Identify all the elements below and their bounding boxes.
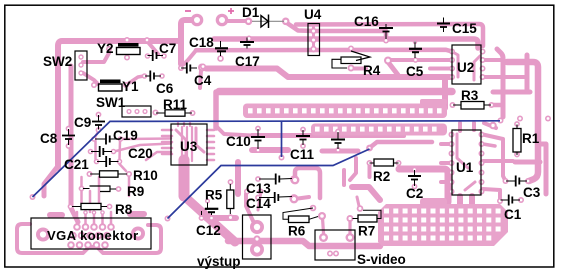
capacitor C14 [259,197,292,198]
wire vertical x90 R9 to VGA [89,191,92,212]
pad SW1-3 [142,109,147,114]
svg-text:C7: C7 [159,41,176,56]
svg-text:S-video: S-video [357,252,406,267]
capacitor C5 [414,42,416,59]
wire y136 C10-C11 [252,133,312,138]
wire y142 right [370,142,432,148]
pad SW1-1 [126,109,131,114]
capacitor C15 [443,18,445,33]
pad VGA hole L [36,228,50,242]
pad C11-1 [300,127,306,133]
svg-text:C17: C17 [235,54,260,69]
pad blue1v end [279,155,285,161]
capacitor C19 [95,138,119,140]
capacitor C16 [385,24,387,39]
wire blue jumper 1 vertical branch [281,122,283,158]
pad VGA row3 pin2 [76,241,84,249]
wire Y1 to C6 [126,76,144,85]
capacitor C7 [148,55,164,57]
pad blue1 end [498,118,504,124]
wire stub above R7 [357,197,359,206]
wire under pour B bottom [313,134,404,138]
resistor R9 [83,188,116,191]
pad U2-4 [449,74,455,80]
wire vga top arms [50,212,62,218]
pad Y2-1 [124,37,130,43]
wire H2 y30.5 [314,31,386,40]
wire y150 left of C11 [252,147,288,153]
blue jumper wires [33,121,501,219]
IC U3 [171,124,207,165]
wire U3 top stubs [177,122,179,126]
svg-text:C4: C4 [194,73,212,88]
resistor R11 [156,112,192,114]
wire s-video pads stubs [323,218,324,233]
wire SW2 to Y2 [83,53,109,62]
wire y151 stub [322,149,358,154]
capacitor C20 [91,151,112,153]
pad R2-1 [367,160,373,166]
pad C16 [383,38,389,44]
pad VGA row2 pin3 [86,232,94,240]
pad SV-3 [319,233,328,242]
pad C9-1 [96,112,102,118]
pad top ring A [191,14,204,27]
wire U2 left lead-in [430,67,452,71]
wire U1 interior [457,134,468,168]
pad U4-3 [310,46,316,52]
resistor R1 [516,125,518,156]
pad Y1-2 [123,82,129,88]
pad VY-3 [250,243,264,257]
wire big diagonal to vystup [179,160,190,196]
pad T1 left [200,64,206,70]
pad C12 stem top [205,199,210,204]
connector SW2 [75,51,87,80]
pad SW2-2 [78,62,83,67]
wire vga outline bracket [17,224,161,253]
pad VGA row2 pin1 [69,232,77,240]
resistor R2 [370,162,399,164]
svg-text:R9: R9 [127,184,144,199]
pad R7-1 [347,215,354,222]
pad C19-2 [118,136,124,142]
wire U1 right small [483,135,505,181]
svg-text:R7: R7 [358,224,375,239]
pad R9-1 [79,186,85,192]
wire T1 y67 [206,69,450,78]
wire T2 vertical to y135 connector [216,126,252,136]
wire diag from T1 left pad down [200,70,201,88]
wire thick band to pour bottom [399,169,448,202]
wire U3 left long pins [123,137,171,140]
wire U3 right comb [207,129,214,132]
pad U2-3 [449,66,455,72]
svg-text:R8: R8 [115,202,133,217]
pad SV-5 [327,251,333,257]
svg-text:C11: C11 [290,147,315,162]
wire band under C12-R5 [206,215,236,221]
pad R8-2 [107,204,113,210]
pad capX-1 [335,129,341,135]
wire junction diagonal to C7 [147,41,158,54]
pad VGA stub tops [83,210,88,215]
plus mark [228,8,234,14]
connector VGA [31,218,151,249]
connector S-video [315,230,355,260]
svg-text:SW1: SW1 [96,95,126,110]
wire loop from C14 pad [298,197,309,199]
capacitor capX [337,132,339,149]
pad U1-a3 [449,151,455,157]
pad U1-a2 [449,141,455,147]
pad U1-a5 [449,170,455,176]
wire H1 y23 [296,24,483,46]
svg-text:C16: C16 [354,14,379,29]
svg-text:U1: U1 [456,160,474,175]
pad Y2 left [106,46,112,52]
pad U2-7 [480,57,486,63]
wire U2 interior [451,51,458,77]
svg-text:R5: R5 [205,188,223,203]
connector vystup [243,215,272,259]
pad VGA row1 pin3 [90,223,98,231]
svg-text:C6: C6 [156,81,174,96]
pad U1 topright [489,122,497,130]
pad C12-2 [209,215,215,221]
pad R8-1 [68,204,74,210]
pad C21-1 [94,159,100,165]
pad vystup top R [258,189,264,195]
wire U1 left stubs [441,142,451,146]
wire y60 to U2 [391,58,452,62]
pad VGA row2 pin2 [78,232,86,240]
pad C7-2 [161,53,167,59]
pad R11-2 [190,110,196,116]
pad U1-b6 [479,179,485,185]
pad SW2-3 [78,70,83,75]
svg-text:SW2: SW2 [43,54,72,69]
pad U1-a6 [449,179,455,185]
pad C18 [217,55,224,62]
capacitor C11cap [302,130,304,145]
wire blue jumper 1 [33,121,501,197]
capacitor C12 [202,203,212,216]
pad C19-1 [91,136,97,142]
pad VY-2 [253,235,260,242]
wire U1 bottom stubs [457,196,463,205]
svg-text:C5: C5 [406,64,424,79]
pad R6-1 [310,205,317,212]
pad R3-2 [489,102,495,108]
pad C20-1 [88,149,94,155]
pad C13-1 [255,176,261,182]
wire U4 interior [312,27,315,51]
pad C6-2 [159,73,165,79]
pad C21-2 [117,159,123,165]
svg-text:C8: C8 [40,131,58,146]
svg-text:R2: R2 [373,169,390,184]
svg-text:U2: U2 [457,60,474,75]
pad R9-2 [116,186,122,192]
svg-text:C18: C18 [189,35,214,50]
pad U1-b4 [479,160,485,166]
capacitor C17 [246,38,248,49]
pad D1 anode [245,18,253,26]
svg-text:C13: C13 [246,181,271,196]
pad blue2 end [366,145,373,152]
pad C5 high [413,40,417,44]
capacitor C21 [97,161,119,163]
diode D1 [252,20,284,22]
capacitor C4 [181,67,197,69]
capacitor C1 [501,199,521,201]
capacitor C6 [145,75,161,77]
pad R4 ring [384,57,392,65]
svg-text:Y1: Y1 [122,79,139,94]
svg-text:C2: C2 [406,186,423,201]
svg-text:D1: D1 [242,5,260,20]
pad C5 low [413,57,419,63]
svg-text:C12: C12 [196,223,221,238]
wire pad to pad top [226,19,247,23]
wire right tall vertical [507,62,538,181]
wire y162 right [515,160,540,165]
pad C8-2 [66,143,72,149]
svg-text:C10: C10 [226,134,251,149]
svg-text:R4: R4 [363,63,381,78]
pad loop1 [291,176,300,185]
svg-text:C15: C15 [452,21,477,36]
copper pour band A [243,99,447,118]
wire U1 top right diag [484,123,496,128]
pad loop2 [290,195,299,204]
connector SW1 [122,106,151,117]
svg-text:VGA konektor: VGA konektor [47,228,139,243]
svg-text:R10: R10 [133,168,158,183]
pad U2-2 [449,57,455,63]
wire T2 y91 band [219,88,452,96]
pad R5-2 [227,214,234,221]
wire diagonal to VGA area [44,166,58,196]
pad C1-2 [518,197,524,203]
pad VGA row3 pin3 [84,241,92,249]
pad R1-1 [514,121,520,127]
svg-text:C19: C19 [113,128,138,143]
svg-text:U3: U3 [180,139,198,154]
pad VGA row1 pin1 [73,223,81,231]
pad blue2 start [165,216,171,222]
wire thick band to pour corner [352,187,380,200]
pad SW1-2 [134,109,139,114]
pad SV-6 [333,251,339,257]
wire H5 y53 [196,50,452,52]
capacitor C8 [68,129,70,145]
minus mark [185,10,191,12]
pad C3-2 [525,178,531,184]
wire vystup pads stubs [246,194,254,223]
capacitor C13 [259,178,292,181]
resistor R3 [453,104,491,106]
pad VGA row3 pin1 [67,241,75,249]
pad y118 L [517,116,523,122]
wire U3 inner diag [176,130,186,160]
pad Y1-1 [91,82,97,88]
pad C14-2 [290,194,299,203]
wire vertical x503 [497,49,503,117]
svg-text:C20: C20 [128,146,153,161]
wire D1 to U4 [287,23,313,31]
pad U1-a4 [449,160,455,166]
wire vertical x356 [350,158,356,180]
pad R10-1 [87,171,93,177]
pad VGA row3 pin5 [101,241,109,249]
pad C20-2 [111,149,117,155]
pad R1-2 [514,152,520,158]
pad VGA row1 pin2 [82,223,90,231]
pad R3-1 [450,102,456,108]
svg-text:R11: R11 [163,97,188,112]
pad SW2-1 [78,54,83,59]
pad VGA row1 pin5 [107,223,115,231]
svg-text:R3: R3 [461,88,479,103]
wire vertical x344 [342,170,346,185]
pad U1-a7 [449,189,455,195]
pad top ring B [216,14,229,27]
pad R2-2 [396,160,402,166]
pad U1-a1 [449,132,455,138]
pad U4-1 [310,28,316,34]
resistor R6 [283,208,318,219]
pad junction T1 [144,37,150,43]
pad U2-8 [480,49,486,55]
IC U2 [452,45,481,84]
capacitor C18 [220,41,222,56]
wire H3 y39 [214,39,478,48]
svg-text:C21: C21 [64,157,89,172]
resistor R8 [72,206,107,208]
wire vertical x238 [235,162,241,194]
wire loop from C13 pad [295,168,320,198]
wire U1 top stubs [458,123,462,131]
wire vga feeder verticals [76,212,79,226]
pad capX-2 [335,147,341,153]
pad C1-1 [497,198,503,204]
wire U3 left comb [162,129,172,132]
pad U1-b5 [479,170,485,176]
pad VGA row3 pin4 [93,241,101,249]
pad C4-2 [198,64,206,72]
pad C6-1 [142,73,148,79]
pad U1-b2 [479,141,485,147]
pad C3-1 [503,178,509,184]
capacitor C10 [257,129,259,149]
crystal Y2 [118,43,139,47]
pad C11-2 [300,143,306,149]
pad R4 bottom [348,65,355,72]
wire left column links [95,132,98,137]
pad vystup top L [244,189,250,195]
wire U2 right connections [482,58,502,62]
pad U2-5 [480,74,486,80]
wire SW2 to Y1 [83,73,98,84]
pad C7-1 [145,53,151,59]
pad U1-b1 [479,132,485,138]
capacitor C9 [98,115,100,130]
pad U1-b3 [479,151,485,157]
svg-text:C14: C14 [246,196,271,211]
capacitor C2 [414,170,416,186]
svg-text:C9: C9 [74,115,91,130]
svg-text:C1: C1 [504,207,522,222]
wire pour A feed [442,79,448,108]
pad VGA row2 pin4 [95,232,103,240]
copper pour band B [311,124,447,136]
pad C9-2 [96,127,102,133]
pad VGA row2 pin5 [103,232,111,240]
pad R10-2 [126,171,132,177]
pad C10-2 [255,147,261,153]
pad C2-1 [412,167,418,173]
wire top-left horizontal band [58,41,178,168]
svg-text:Y2: Y2 [97,41,114,56]
wire right lower vertical [538,144,546,194]
wire U3 interior verticals [181,127,183,161]
potentiometer R4 [341,57,361,64]
pad y118 R [545,116,551,122]
pad blue1 start [30,194,36,200]
pad U2-1 [449,49,455,55]
pad junction H3 [246,36,252,42]
pad C2-2 [412,184,418,190]
pad VGA row1 pin4 [99,223,107,231]
pad SV-4 [346,233,355,242]
capacitor C3 [506,180,527,182]
pad C14-1 [255,195,261,201]
copper layer [17,20,546,253]
wire T2 vertical [213,92,219,128]
pad C4-1 [178,65,184,71]
pad Y2-2 [124,55,130,61]
wire vertical at x181 to top pad [181,20,192,64]
resistor R10 [90,173,127,175]
pad R11-1 [153,110,159,116]
svg-text:C3: C3 [523,185,541,200]
pad D1 cathode [282,18,290,26]
wire vertical from SW2 down [71,66,78,222]
pad R4 top [348,46,354,52]
resistor R7 [353,210,382,218]
IC U1 [452,130,481,195]
wire vertical below R2 left pad [368,166,372,177]
resistor R5 [229,184,231,214]
wire R3 right pad up [491,103,501,108]
pad VGA hole R [131,227,145,241]
wire blue jumper 2 [168,149,370,219]
pad C8-1 [66,126,72,132]
crystal Y1 [100,80,121,84]
wire R4 ring diag to T1 [388,62,398,75]
svg-text:R1: R1 [522,131,540,146]
pad U2-6 [480,66,486,72]
pad R5-1 [228,179,234,185]
copper pour bottom right [378,198,508,246]
pad C13-2 [290,175,299,184]
svg-text:U4: U4 [304,7,322,22]
pad U1-b7 [479,189,485,195]
pad C12-1 [199,215,205,221]
pad VY-1 [250,220,264,234]
